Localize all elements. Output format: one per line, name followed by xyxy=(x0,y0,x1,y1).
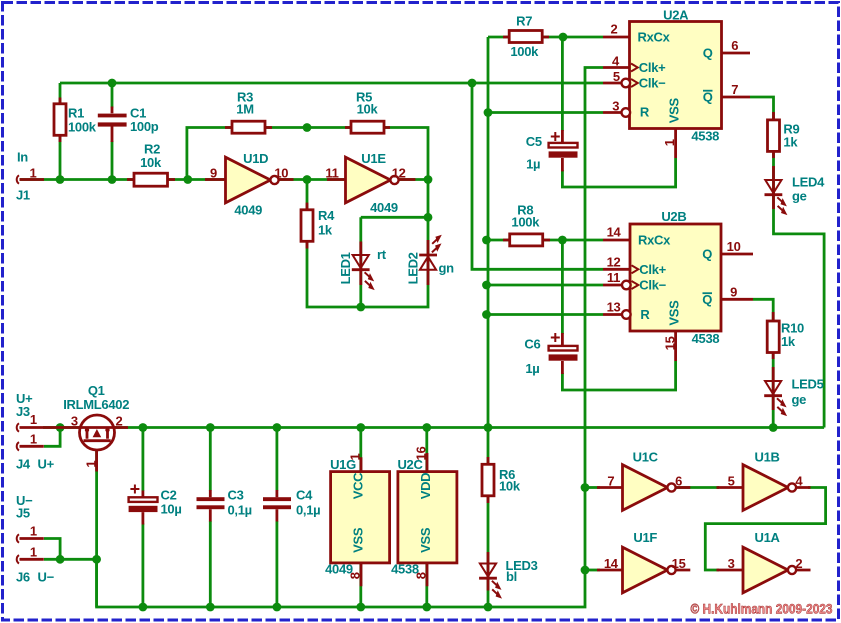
svg-text:R: R xyxy=(640,307,650,322)
svg-text:4538: 4538 xyxy=(692,331,720,346)
IC U2C supply box xyxy=(398,472,457,563)
resistor R1 body xyxy=(54,104,66,136)
inverter U1F pins xyxy=(597,569,690,572)
svg-text:© H.Kuhlmann 2009-2023: © H.Kuhlmann 2009-2023 xyxy=(691,602,833,617)
svg-text:U−: U− xyxy=(38,570,55,585)
resistor R2 pins xyxy=(127,178,175,181)
LED3 blue LED pointing down xyxy=(479,564,502,599)
svg-text:2: 2 xyxy=(795,556,802,571)
wire U1G supply pins column xyxy=(359,428,362,608)
svg-text:1: 1 xyxy=(348,453,363,460)
wire C3 column xyxy=(209,428,212,608)
U2B clock wedges xyxy=(632,265,639,273)
resistor R7 body xyxy=(509,31,542,43)
svg-text:4: 4 xyxy=(795,474,803,489)
resistor R10 pins xyxy=(772,312,775,359)
wire C5 column and loop to U2A pin1 xyxy=(562,37,675,187)
svg-text:VSS: VSS xyxy=(418,527,433,553)
resistor R10 body xyxy=(767,321,779,353)
svg-text:VSS: VSS xyxy=(351,527,366,553)
wire J4 riser xyxy=(44,428,60,447)
U2A input pins 2 4 5 3 xyxy=(603,37,630,113)
svg-text:1k: 1k xyxy=(318,223,333,238)
svg-text:Q: Q xyxy=(702,292,712,307)
svg-text:1: 1 xyxy=(30,412,37,427)
inverter U1C pins xyxy=(597,486,690,489)
op-amp U1E inverter triangle xyxy=(346,157,391,203)
svg-text:15: 15 xyxy=(672,556,686,571)
svg-text:U1B: U1B xyxy=(755,450,780,465)
svg-text:Clk−: Clk− xyxy=(639,278,666,293)
capacitor C1 plates xyxy=(98,114,127,118)
svg-text:1: 1 xyxy=(30,166,37,181)
op-amp U1B inverter triangle xyxy=(743,465,788,511)
capacitor C2 pins xyxy=(141,491,144,525)
LED1 red LED pointing down xyxy=(352,255,375,290)
svg-text:J4: J4 xyxy=(16,457,31,472)
svg-text:0,1µ: 0,1µ xyxy=(228,503,252,518)
U2A clock wedges xyxy=(631,64,638,72)
wire R3-R5 feedback row y127.5 and LED2 column down xyxy=(187,128,428,308)
svg-text:10k: 10k xyxy=(499,479,521,494)
svg-text:100k: 100k xyxy=(510,44,539,59)
svg-text:LED4: LED4 xyxy=(792,175,825,190)
wire LED1 branch xyxy=(361,217,428,307)
resistor R4 pins xyxy=(306,203,309,249)
resistor R3 body xyxy=(232,121,265,133)
resistor R3 pins xyxy=(225,126,272,129)
svg-text:100p: 100p xyxy=(130,119,159,134)
svg-text:2: 2 xyxy=(116,414,123,429)
svg-text:8: 8 xyxy=(348,572,363,579)
U2B output pins 10 9 and pin15 xyxy=(676,254,753,361)
capacitor C3 pins xyxy=(209,490,212,522)
resistor R1 pins xyxy=(59,98,62,143)
IC U2A box xyxy=(630,22,722,129)
resistor R6 body xyxy=(482,464,494,496)
LED4 pins xyxy=(772,166,775,209)
svg-text:5: 5 xyxy=(728,474,735,489)
svg-text:4049: 4049 xyxy=(370,200,398,215)
resistor R9 pins xyxy=(772,112,775,158)
connector J3 end mark xyxy=(17,423,19,431)
op-amp U1A inverter triangle xyxy=(743,547,788,593)
capacitor C3 plates xyxy=(197,497,225,501)
svg-text:1: 1 xyxy=(84,461,99,468)
svg-text:Q1: Q1 xyxy=(88,383,105,398)
resistor R5 pins xyxy=(345,126,390,129)
transistor Q1 pins xyxy=(20,428,129,472)
wire C6 column and loop to U2B pin15 xyxy=(562,240,675,390)
svg-text:VCC: VCC xyxy=(351,472,366,499)
IC U2B box xyxy=(630,224,721,331)
svg-text:R1: R1 xyxy=(68,106,84,121)
resistor R8 pins xyxy=(503,239,550,242)
LED2 pins xyxy=(427,240,430,285)
wire C1 column xyxy=(111,83,114,180)
wire top row y83 R1 top to U2A pin5 xyxy=(60,82,603,85)
svg-text:12: 12 xyxy=(392,166,406,181)
svg-text:6: 6 xyxy=(675,474,682,489)
svg-text:14: 14 xyxy=(607,225,622,240)
svg-text:9: 9 xyxy=(210,166,217,181)
capacitor C6 plates polarized xyxy=(549,346,578,351)
svg-text:1µ: 1µ xyxy=(525,361,539,376)
U1G supply pins xyxy=(360,457,363,586)
wire U1B out loop to U1A in xyxy=(705,488,825,571)
capacitor C6 pins xyxy=(561,333,564,374)
svg-text:U+: U+ xyxy=(38,457,55,472)
svg-text:U1D: U1D xyxy=(243,151,268,166)
svg-text:11: 11 xyxy=(325,166,338,181)
inverter U1B pins xyxy=(717,486,811,489)
svg-text:U1E: U1E xyxy=(361,151,386,166)
plus sign C5 xyxy=(551,132,560,141)
svg-text:RxCx: RxCx xyxy=(638,30,671,45)
U2A pin5 pin3 invert bubbles xyxy=(622,79,631,88)
resistor R4 body xyxy=(301,210,313,242)
svg-text:1: 1 xyxy=(30,544,37,559)
svg-text:1: 1 xyxy=(662,139,677,146)
resistor R7 pins xyxy=(503,36,549,39)
wire U1C out to U1B in xyxy=(676,486,719,489)
connector J4 end mark xyxy=(17,442,19,450)
wire R1 column xyxy=(59,83,62,180)
connector J3 J4 J5 J6 pins xyxy=(20,446,44,559)
svg-text:U1A: U1A xyxy=(755,530,781,545)
capacitor C4 plates xyxy=(263,497,291,501)
svg-text:rt: rt xyxy=(377,247,387,262)
svg-text:U1F: U1F xyxy=(633,530,657,545)
LED1 pins xyxy=(359,242,362,286)
inverter U1E pins xyxy=(327,178,415,181)
svg-text:6: 6 xyxy=(731,38,738,53)
svg-text:1µ: 1µ xyxy=(526,157,540,172)
svg-text:4: 4 xyxy=(612,54,620,69)
LED3 pins xyxy=(487,552,490,591)
svg-text:Q: Q xyxy=(702,247,712,262)
inverter U1A pins xyxy=(717,569,811,572)
svg-text:1k: 1k xyxy=(781,334,796,349)
svg-text:7: 7 xyxy=(607,474,614,489)
svg-text:10: 10 xyxy=(274,166,288,181)
capacitor C5 plates polarized xyxy=(549,143,578,148)
svg-text:C3: C3 xyxy=(228,488,244,503)
svg-text:10: 10 xyxy=(727,239,741,254)
svg-text:4538: 4538 xyxy=(691,129,719,144)
svg-text:10µ: 10µ xyxy=(161,502,182,517)
svg-text:5: 5 xyxy=(613,69,620,84)
capacitor C2 plates polarized xyxy=(129,497,158,502)
svg-text:15: 15 xyxy=(663,336,678,350)
svg-text:Clk+: Clk+ xyxy=(639,60,666,75)
svg-text:9: 9 xyxy=(730,284,737,299)
resistor R6 pins xyxy=(487,457,490,503)
svg-text:C4: C4 xyxy=(296,488,313,503)
svg-text:J5: J5 xyxy=(16,506,30,521)
svg-text:7: 7 xyxy=(731,82,738,97)
resistor R8 body xyxy=(510,234,543,246)
svg-text:In: In xyxy=(17,150,28,165)
plus sign C2 xyxy=(130,485,139,494)
svg-text:RxCx: RxCx xyxy=(638,233,671,248)
connector J5 end mark xyxy=(17,534,19,542)
svg-text:100k: 100k xyxy=(511,215,540,230)
svg-text:0,1µ: 0,1µ xyxy=(296,503,320,518)
svg-text:LED5: LED5 xyxy=(792,377,824,392)
wire U1C input stub xyxy=(585,486,600,489)
wire C4 column xyxy=(275,428,278,608)
LED5 yellow LED pointing down xyxy=(764,381,787,416)
wire U2C supply pins column xyxy=(425,428,428,608)
wire +V rail y427.5 xyxy=(43,426,824,429)
svg-text:J3: J3 xyxy=(16,404,30,419)
svg-text:1M: 1M xyxy=(236,102,253,117)
svg-text:13: 13 xyxy=(607,300,621,315)
svg-text:R: R xyxy=(640,105,650,120)
connector J1 pin 1 xyxy=(20,178,45,181)
wire U1F input stub xyxy=(585,569,600,572)
svg-text:10k: 10k xyxy=(357,102,379,117)
svg-text:1: 1 xyxy=(30,432,37,447)
svg-text:4049: 4049 xyxy=(234,203,262,218)
U2B pin11 pin13 invert bubbles xyxy=(622,281,631,290)
wire main input row y179.5 J1 to LED2 column xyxy=(20,178,429,181)
svg-text:gn: gn xyxy=(439,261,455,276)
svg-text:3: 3 xyxy=(728,556,735,571)
svg-text:3: 3 xyxy=(612,99,619,114)
wire U2B R row xyxy=(487,313,604,316)
svg-text:14: 14 xyxy=(604,556,619,571)
wire x488 supply column R7 to bottom rail through R6 LED3 xyxy=(487,37,490,607)
connector J6 end mark xyxy=(17,555,19,563)
wire Q1 gate column xyxy=(95,445,98,607)
wire x472 column C1-net to U2B Clk+ xyxy=(472,83,603,269)
wire U2A Clk+ row and x585 ground column xyxy=(97,68,603,608)
svg-text:Q: Q xyxy=(703,90,713,105)
svg-text:VSS: VSS xyxy=(667,300,682,326)
svg-text:U2B: U2B xyxy=(661,209,686,224)
U2B input pins 14 12 11 13 xyxy=(603,240,630,315)
svg-text:LED1: LED1 xyxy=(338,252,353,284)
capacitor C4 pins xyxy=(275,490,278,522)
svg-text:11: 11 xyxy=(607,270,620,285)
plus sign C6 xyxy=(551,333,560,342)
resistor R9 body xyxy=(768,120,780,151)
svg-text:Q: Q xyxy=(703,46,713,61)
op-amp U1F inverter triangle xyxy=(623,547,668,593)
svg-text:Clk+: Clk+ xyxy=(639,262,666,277)
svg-text:IRLML6402: IRLML6402 xyxy=(63,397,129,412)
svg-text:U2A: U2A xyxy=(663,8,689,23)
LED4 yellow LED pointing down xyxy=(765,180,788,215)
IC U1G supply box xyxy=(331,472,390,563)
wire C2 column xyxy=(141,428,144,608)
svg-text:100k: 100k xyxy=(68,120,97,135)
svg-text:J6: J6 xyxy=(16,570,30,585)
wire U2A Qbar to R9 LED4 branch xyxy=(750,97,824,428)
op-amp U1D inverter triangle xyxy=(226,157,271,203)
svg-text:12: 12 xyxy=(607,254,621,269)
capacitor C5 pins xyxy=(561,130,564,171)
svg-text:3: 3 xyxy=(71,414,78,429)
svg-text:bl: bl xyxy=(506,569,517,584)
resistor R2 body xyxy=(134,173,168,186)
LED2 green LED pointing up xyxy=(419,235,442,270)
LED5 pins xyxy=(772,367,775,410)
inverter U1D pins xyxy=(205,178,294,181)
U2C supply pins xyxy=(426,453,429,586)
svg-text:VDD: VDD xyxy=(418,473,433,500)
svg-text:C2: C2 xyxy=(161,488,177,503)
svg-text:R4: R4 xyxy=(318,208,335,223)
svg-text:ge: ge xyxy=(792,189,807,204)
svg-text:C6: C6 xyxy=(524,337,540,352)
connector J1 end mark xyxy=(17,175,19,183)
resistor R5 body xyxy=(351,121,384,133)
svg-text:ge: ge xyxy=(792,392,807,407)
svg-text:LED2: LED2 xyxy=(406,252,421,284)
svg-text:C5: C5 xyxy=(526,134,542,149)
svg-text:U1C: U1C xyxy=(633,450,659,465)
svg-text:1k: 1k xyxy=(783,135,798,150)
wire U2B Qbar to R10 LED5 branch xyxy=(753,299,773,427)
wire U2B Clk- row xyxy=(487,284,604,287)
wire U2A R row xyxy=(488,111,603,114)
svg-text:2: 2 xyxy=(611,22,618,37)
transistor Q1 MOSFET xyxy=(80,415,115,450)
capacitor C1 pins xyxy=(111,107,114,143)
op-amp U1C inverter triangle xyxy=(623,465,668,511)
svg-text:16: 16 xyxy=(414,447,429,461)
wire J5 J6 row xyxy=(44,539,97,560)
svg-text:1: 1 xyxy=(30,524,37,539)
svg-text:8: 8 xyxy=(414,572,429,579)
svg-text:J1: J1 xyxy=(16,188,30,203)
svg-text:Clk−: Clk− xyxy=(639,76,666,91)
wire R7 row y37 xyxy=(488,36,603,39)
svg-text:R7: R7 xyxy=(516,14,532,29)
U2A output pins 6 7 and pin1 xyxy=(676,53,750,158)
wire R8 row y240 xyxy=(487,239,604,242)
svg-text:10k: 10k xyxy=(140,155,162,170)
svg-text:VSS: VSS xyxy=(667,98,682,124)
